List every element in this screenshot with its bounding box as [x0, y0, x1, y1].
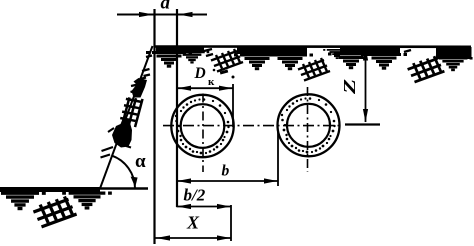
pipe 1 vertical centerline: [202, 94, 204, 173]
dimension X left arrow: [156, 235, 170, 240]
slope crosshatch patch: [112, 91, 151, 132]
lower ground surface line: [1, 187, 148, 189]
dimension a left arrow: [139, 12, 154, 17]
dimension X line: [155, 237, 231, 239]
collector pipe 2 inner circle: [287, 104, 330, 147]
small hatch marks near crosshatch 1: [204, 49, 411, 56]
earth tuft 5: [361, 55, 407, 69]
slope line: [100, 46, 153, 189]
angle arc arrowhead: [131, 177, 138, 188]
slope hatch blob A: [132, 78, 148, 98]
pipe 2 vertical centerline: [307, 87, 309, 172]
collector pipe 2 outer circle: [278, 94, 340, 156]
svg-text:a: a: [161, 0, 171, 14]
dimension Dk extension line: [232, 84, 234, 127]
dimension b left arrow: [177, 178, 191, 183]
trench left wall: [153, 9, 155, 244]
dimension Z line: [365, 47, 367, 122]
dimension b extension line: [277, 131, 279, 186]
dimension b/2 right arrow: [217, 204, 231, 209]
ground surface hatching band 4: [436, 47, 472, 59]
dimension b/2 left arrow: [177, 204, 191, 209]
dimension a line: [117, 14, 207, 16]
ground surface line (top): [154, 45, 471, 48]
crosshatch patch 1: [211, 49, 243, 72]
earth tuft 1: [146, 53, 192, 67]
dimension b right arrow: [264, 178, 278, 183]
dimension Z top arrow: [363, 47, 368, 61]
crosshatch patch lower: [33, 197, 76, 227]
svg-text:Z: Z: [340, 79, 359, 95]
trench right line: [176, 9, 178, 207]
earth tuft lower 2: [62, 193, 112, 208]
dimension Z bottom tick: [345, 123, 380, 125]
dimension b line: [177, 180, 279, 182]
collector pipe 1 ring stipple: [175, 98, 230, 154]
earth tuft lower 1: [0, 193, 46, 208]
svg-text:X: X: [186, 213, 200, 233]
earth tuft 1b: [175, 52, 210, 62]
crosshatch patch 3: [408, 56, 445, 82]
svg-text:b/2: b/2: [184, 186, 206, 205]
earth tuft 7 small: [323, 50, 351, 58]
slope hatch dashes upper: [140, 56, 152, 80]
crosshatch patch 2: [298, 58, 330, 81]
stray hatch marks: [213, 69, 235, 79]
dimension X right arrow: [217, 235, 231, 240]
dimension Dk left arrow: [178, 86, 192, 91]
ground surface hatching band 2: [237, 47, 307, 55]
dimension Dk line: [177, 87, 233, 89]
collector pipe 1 inner circle: [181, 104, 225, 148]
dimension b/2 line: [177, 206, 232, 208]
collector pipe 1 outer circle: [171, 95, 233, 157]
svg-text:α: α: [135, 151, 146, 172]
earth tuft 6: [433, 58, 472, 70]
dimension b/2 extension line: [230, 205, 232, 241]
ground surface hatching band 1: [156, 47, 204, 54]
angle arc alpha: [112, 156, 135, 188]
horizontal centerline: [163, 125, 342, 127]
lower ground thick band: [0, 187, 100, 192]
earth tuft 3: [267, 55, 313, 69]
ground surface hatching band 3: [340, 47, 400, 54]
earth tuft 4: [328, 54, 374, 68]
slope hatch ticks: [101, 147, 114, 158]
svg-text:к: к: [208, 76, 215, 88]
dimension Z bottom arrow: [363, 109, 368, 122]
slope hatch blob B: [112, 116, 132, 148]
collector pipe 2 ring stipple: [281, 97, 336, 153]
svg-text:b: b: [222, 162, 230, 179]
dimension Dk right arrow: [219, 86, 233, 91]
earth tuft 2: [234, 55, 280, 69]
dimension a right arrow: [178, 12, 192, 17]
svg-text:D: D: [194, 65, 206, 82]
